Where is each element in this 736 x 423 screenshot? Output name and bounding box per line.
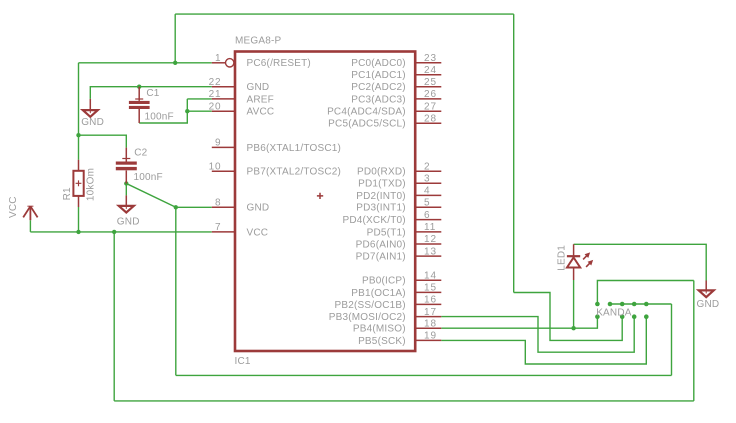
svg-text:21: 21 bbox=[209, 89, 222, 100]
wire RESET: pin1 horizontal bbox=[79, 62, 212, 64]
svg-text:KANDA: KANDA bbox=[596, 307, 632, 318]
svg-text:IC1: IC1 bbox=[235, 356, 251, 367]
wire VCC: bottom run bbox=[114, 400, 694, 402]
svg-text:GND: GND bbox=[117, 217, 140, 228]
svg-text:PC4(ADC4/SDA): PC4(ADC4/SDA) bbox=[327, 107, 406, 118]
pin 2 stub bbox=[415, 170, 441, 172]
IC1 right pin names bbox=[327, 58, 406, 347]
wire GND: long drop bbox=[175, 207, 177, 375]
wire MOSI: pin17 to KANDA bbox=[441, 317, 634, 353]
svg-text:PB0(ICP): PB0(ICP) bbox=[362, 276, 406, 287]
svg-text:AVCC: AVCC bbox=[247, 107, 275, 118]
pin 5 stub bbox=[415, 206, 441, 208]
svg-text:11: 11 bbox=[424, 222, 436, 233]
pin 15 stub bbox=[415, 291, 441, 293]
svg-text:13: 13 bbox=[424, 246, 437, 257]
wire GND: C2 bottom stub bbox=[125, 184, 127, 196]
svg-text:PB7(XTAL2/TOSC2): PB7(XTAL2/TOSC2) bbox=[247, 167, 342, 178]
supply VCC symbol bbox=[23, 206, 37, 220]
node GND/C2 junction bbox=[124, 181, 128, 185]
LED D1 bbox=[567, 244, 593, 280]
pin 10 stub bbox=[212, 170, 235, 172]
svg-text:2: 2 bbox=[424, 161, 430, 172]
pin 27 stub bbox=[415, 110, 441, 112]
connector KANDA pads bbox=[595, 302, 648, 319]
svg-text:PC3(ADC3): PC3(ADC3) bbox=[351, 94, 406, 105]
svg-text:GND: GND bbox=[247, 203, 270, 214]
svg-text:PC5(ADC5/SCL): PC5(ADC5/SCL) bbox=[328, 119, 406, 130]
IC1 origin cross bbox=[317, 193, 323, 199]
wire SCK: pin19 to KANDA bbox=[441, 317, 646, 364]
svg-text:PD0(RXD): PD0(RXD) bbox=[357, 167, 406, 178]
svg-text:C1: C1 bbox=[146, 88, 159, 99]
svg-text:PD7(AIN1): PD7(AIN1) bbox=[356, 252, 406, 263]
svg-text:GND: GND bbox=[697, 299, 720, 310]
svg-text:1: 1 bbox=[215, 53, 221, 64]
svg-text:PD5(T1): PD5(T1) bbox=[367, 227, 406, 238]
svg-text:PB1(OC1A): PB1(OC1A) bbox=[351, 288, 406, 299]
wire GND: to pin8 bbox=[176, 206, 212, 208]
ground GND2 symbol bbox=[119, 195, 134, 212]
svg-text:100nF: 100nF bbox=[134, 172, 163, 183]
svg-text:28: 28 bbox=[424, 113, 437, 124]
node MISO/LED junction bbox=[571, 326, 575, 330]
svg-text:27: 27 bbox=[424, 101, 437, 112]
ground GND1 symbol bbox=[83, 99, 98, 117]
svg-text:PC1(ADC1): PC1(ADC1) bbox=[351, 70, 406, 81]
wire AVCC: to pin20 bbox=[187, 110, 212, 112]
wire GND: pin22 to GND1 bbox=[90, 87, 212, 99]
IC1 pin1 inversion bubble bbox=[226, 59, 234, 67]
svg-text:PC6(/RESET): PC6(/RESET) bbox=[247, 58, 311, 69]
wire GND: bottom run bbox=[176, 374, 672, 376]
svg-text:PD4(XCK/T0): PD4(XCK/T0) bbox=[342, 215, 405, 226]
svg-text:15: 15 bbox=[424, 283, 437, 294]
svg-text:26: 26 bbox=[424, 89, 437, 100]
pin 23 stub bbox=[415, 62, 441, 64]
svg-text:100nF: 100nF bbox=[145, 111, 174, 122]
pin 6 stub bbox=[415, 219, 441, 221]
pin 11 stub bbox=[415, 231, 441, 233]
wire AREF: to pin21 bbox=[187, 98, 212, 100]
resistor R1 bbox=[73, 160, 83, 207]
IC1 pin stubs right bbox=[415, 63, 441, 341]
wire RESET: down to R1 top bbox=[78, 63, 80, 160]
svg-text:R1: R1 bbox=[62, 187, 73, 200]
wire GND: rise to KANDA bbox=[671, 304, 673, 375]
wire AVCC: C1 bottom run bbox=[139, 99, 187, 123]
svg-text:PB6(XTAL1/TOSC1): PB6(XTAL1/TOSC1) bbox=[247, 143, 342, 154]
node VCC/R1 junction bbox=[76, 230, 80, 234]
svg-text:16: 16 bbox=[424, 295, 437, 306]
wire GND: KANDA top row bus bbox=[610, 303, 672, 305]
pin 3 stub bbox=[415, 182, 441, 184]
svg-text:10kOm: 10kOm bbox=[85, 168, 96, 201]
svg-text:PD6(AIN0): PD6(AIN0) bbox=[356, 239, 406, 250]
node AREF/AVCC junction bbox=[185, 109, 189, 113]
svg-text:3: 3 bbox=[424, 174, 430, 185]
svg-text:19: 19 bbox=[424, 331, 437, 342]
wire MISO: LED cathode drop bbox=[573, 280, 575, 328]
svg-text:5: 5 bbox=[424, 198, 430, 209]
svg-text:23: 23 bbox=[424, 53, 437, 64]
svg-text:18: 18 bbox=[424, 318, 437, 329]
pin 17 stub bbox=[415, 316, 441, 318]
pin 22 stub bbox=[212, 86, 235, 88]
svg-text:C2: C2 bbox=[134, 147, 147, 158]
node GND/pin8 junction bbox=[174, 205, 178, 209]
IC1 pin stubs left bbox=[212, 63, 235, 232]
wire GND: diagonal C2 to pin8 node bbox=[126, 184, 176, 208]
node RESET/riser junction bbox=[173, 61, 177, 65]
pin 19 stub bbox=[415, 339, 441, 341]
node VCC drop junction bbox=[112, 230, 116, 234]
svg-text:PC0(ADC0): PC0(ADC0) bbox=[351, 58, 406, 69]
pin 28 stub bbox=[415, 122, 441, 124]
svg-text:MEGA8-P: MEGA8-P bbox=[235, 36, 282, 47]
svg-text:24: 24 bbox=[424, 65, 437, 76]
svg-text:6: 6 bbox=[424, 210, 430, 221]
wire LED anode to GND3 bbox=[574, 244, 707, 280]
svg-text:4: 4 bbox=[424, 186, 430, 197]
svg-text:PC2(ADC2): PC2(ADC2) bbox=[351, 82, 406, 93]
ground GND3 symbol bbox=[699, 281, 714, 298]
svg-text:17: 17 bbox=[424, 307, 437, 318]
pin 1 stub bbox=[212, 62, 226, 64]
svg-text:GND: GND bbox=[81, 117, 104, 128]
IC1 MEGA8-P body bbox=[235, 52, 415, 352]
pin 16 stub bbox=[415, 303, 441, 305]
wire RESET: left riser to top rail bbox=[174, 14, 176, 63]
wire VCC: top run to KANDA bbox=[597, 281, 693, 305]
pin 14 stub bbox=[415, 279, 441, 281]
svg-text:LED1: LED1 bbox=[557, 245, 568, 271]
wire RESET: branch to C2 top bbox=[79, 135, 127, 147]
capacitor C2 bbox=[116, 148, 137, 184]
wire VCC: right rise bbox=[693, 281, 695, 401]
capacitor C1 bbox=[129, 87, 150, 123]
pin 24 stub bbox=[415, 74, 441, 76]
wire RESET: right drop bbox=[513, 14, 515, 292]
pin 18 stub bbox=[415, 327, 441, 329]
svg-text:GND: GND bbox=[247, 82, 270, 93]
IC1 left pin names bbox=[247, 58, 342, 238]
svg-text:25: 25 bbox=[424, 77, 437, 88]
svg-text:20: 20 bbox=[209, 101, 222, 112]
IC1 left pin numbers bbox=[209, 53, 222, 233]
svg-text:PB4(MISO): PB4(MISO) bbox=[353, 324, 406, 335]
svg-text:PB2(SS/OC1B): PB2(SS/OC1B) bbox=[334, 300, 405, 311]
pin 4 stub bbox=[415, 194, 441, 196]
svg-text:7: 7 bbox=[215, 222, 221, 233]
IC1 right pin numbers bbox=[424, 53, 437, 342]
node GND/C1 junction bbox=[137, 85, 141, 89]
pin 9 stub bbox=[212, 146, 235, 148]
svg-text:PB3(MOSI/OC2): PB3(MOSI/OC2) bbox=[329, 312, 406, 323]
svg-text:VCC: VCC bbox=[8, 196, 19, 218]
svg-text:22: 22 bbox=[209, 77, 222, 88]
wire VCC: supply drop bbox=[29, 220, 31, 232]
svg-text:PD3(INT1): PD3(INT1) bbox=[356, 203, 406, 214]
wire RESET: top rail bbox=[175, 13, 514, 15]
node RESET/C2 junction bbox=[76, 133, 80, 137]
svg-text:PB5(SCK): PB5(SCK) bbox=[358, 336, 406, 347]
pin 25 stub bbox=[415, 86, 441, 88]
svg-text:10: 10 bbox=[209, 161, 222, 172]
pin 20 stub bbox=[212, 110, 235, 112]
svg-text:AREF: AREF bbox=[247, 94, 274, 105]
svg-text:9: 9 bbox=[215, 138, 221, 149]
svg-text:PD1(TXD): PD1(TXD) bbox=[358, 179, 406, 190]
svg-text:14: 14 bbox=[424, 271, 437, 282]
svg-text:PD2(INT0): PD2(INT0) bbox=[356, 191, 406, 202]
svg-text:12: 12 bbox=[424, 234, 437, 245]
wire VCC: down from rail bbox=[113, 232, 115, 401]
wire VCC: rail to pin7 bbox=[30, 231, 211, 233]
pin 7 stub bbox=[212, 231, 235, 233]
svg-text:VCC: VCC bbox=[247, 227, 269, 238]
pin 13 stub bbox=[415, 255, 441, 257]
wire MISO: pin18 to KANDA bbox=[441, 317, 597, 329]
wire VCC: R1 bottom stub bbox=[78, 207, 80, 232]
pin 12 stub bbox=[415, 243, 441, 245]
pin 8 stub bbox=[212, 206, 235, 208]
wire RESET: jog to KANDA bbox=[514, 293, 623, 341]
pin 26 stub bbox=[415, 98, 441, 100]
svg-text:8: 8 bbox=[215, 198, 221, 209]
pin 21 stub bbox=[212, 98, 235, 100]
